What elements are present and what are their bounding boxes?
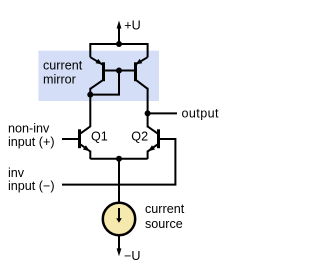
- current mirror highlight box: [38, 51, 159, 101]
- -U supply arrow: [117, 248, 122, 256]
- top supply rail wire: [90, 44, 147, 57]
- svg-text:non-inv: non-inv: [8, 122, 50, 136]
- wire: to negative supply: [118, 235, 120, 249]
- node: top rail junction: [116, 41, 122, 47]
- svg-text:source: source: [145, 217, 183, 231]
- wire: tail down to current source: [118, 159, 120, 204]
- current source arrow: [118, 208, 120, 219]
- wire: common emitter rail: [90, 158, 147, 160]
- transistor PNP left (current mirror): [90, 57, 103, 89]
- svg-text:Q2: Q2: [131, 129, 148, 143]
- wire: left collector down to Q1: [89, 88, 91, 127]
- node: left collector junction: [87, 92, 93, 98]
- transistor PNP right (current mirror): [135, 57, 147, 89]
- svg-text:current: current: [43, 58, 83, 72]
- wire: output stub: [148, 112, 177, 114]
- svg-text:current: current: [145, 202, 185, 216]
- node: tail junction: [116, 156, 122, 162]
- svg-text:input (−): input (−): [8, 179, 55, 193]
- wire: right collector down to output node: [147, 88, 149, 128]
- node: base link junction: [116, 68, 122, 74]
- wire: diode connection drop: [90, 71, 119, 95]
- svg-text:inv: inv: [8, 166, 25, 180]
- wire: mirror base link: [104, 70, 135, 72]
- svg-text:input (+): input (+): [8, 135, 55, 149]
- svg-text:output: output: [182, 106, 220, 120]
- wire: inv input to Q2 base: [62, 139, 175, 185]
- node: output junction: [145, 110, 151, 116]
- svg-text:−U: −U: [124, 249, 140, 263]
- svg-text:+U: +U: [124, 18, 140, 32]
- svg-text:mirror: mirror: [43, 73, 76, 87]
- transistor Q1: [80, 126, 91, 159]
- wire: non-inv input: [62, 138, 78, 140]
- current source I1: [103, 203, 135, 235]
- transistor Q2: [148, 126, 159, 159]
- +U supply arrow: [117, 21, 122, 29]
- svg-text:Q1: Q1: [91, 130, 108, 144]
